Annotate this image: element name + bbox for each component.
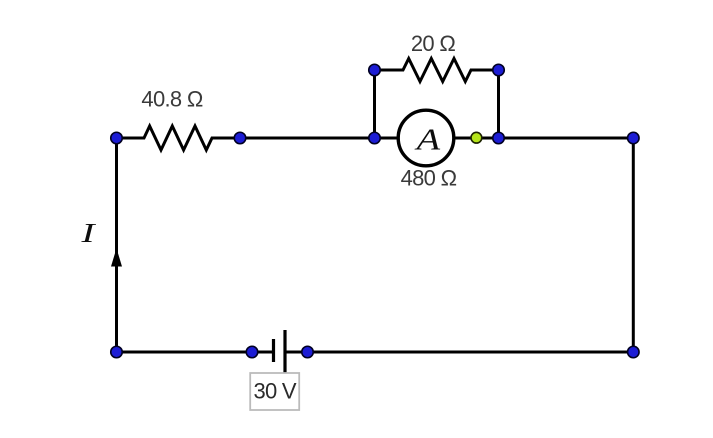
battery label box 30 V bbox=[250, 373, 299, 410]
resistor R2 20 ohm bbox=[375, 59, 499, 82]
svg-text:I: I bbox=[80, 219, 96, 249]
battery B1 long plate bbox=[283, 330, 286, 376]
node K bottom-right bbox=[628, 346, 640, 358]
wire bottom left to battery bbox=[117, 351, 274, 354]
node I battery left bbox=[246, 346, 258, 358]
wire parallel branch left vertical bbox=[373, 70, 376, 138]
node F branch top-left bbox=[369, 64, 381, 76]
label I current bbox=[80, 219, 96, 249]
svg-text:40.8 Ω: 40.8 Ω bbox=[141, 87, 202, 112]
svg-text:30 V: 30 V bbox=[253, 379, 296, 404]
node yellow ammeter terminal bbox=[471, 132, 482, 143]
ammeter U1 circle bbox=[398, 110, 454, 166]
node B after R1 bbox=[234, 132, 246, 144]
wire right vertical bbox=[632, 138, 635, 352]
node C left junction bbox=[369, 132, 381, 144]
wire left vertical bbox=[115, 138, 118, 352]
wire top D-E bbox=[499, 137, 634, 140]
resistor R1 40.8 ohm bbox=[117, 126, 241, 150]
wire top C-D (under ammeter) bbox=[375, 137, 499, 140]
svg-text:20 Ω: 20 Ω bbox=[411, 31, 455, 56]
wire top B-C bbox=[240, 137, 375, 140]
node H bottom-left bbox=[111, 346, 123, 358]
wire parallel branch right vertical bbox=[497, 70, 500, 138]
battery B1 short plate bbox=[272, 339, 275, 362]
svg-text:480 Ω: 480 Ω bbox=[401, 165, 457, 190]
ammeter U1 letter A bbox=[414, 122, 440, 157]
node D right junction bbox=[493, 132, 505, 144]
node E top-right bbox=[628, 132, 640, 144]
node G branch top-right bbox=[493, 64, 505, 76]
wire bottom battery to right bbox=[285, 351, 633, 354]
node A top-left bbox=[111, 132, 123, 144]
node J battery right bbox=[302, 346, 314, 358]
svg-text:A: A bbox=[414, 122, 440, 157]
current arrow bbox=[111, 248, 122, 266]
